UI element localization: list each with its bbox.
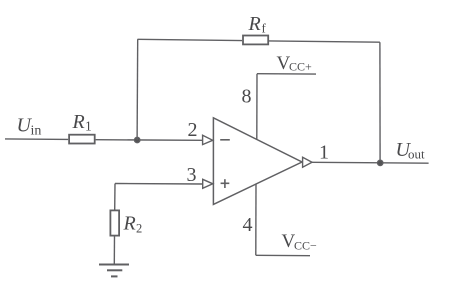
wire pin 4 vertical xyxy=(255,184,257,255)
wire feedback top right xyxy=(269,41,380,42)
node output junction xyxy=(378,160,383,165)
wire R2 to ground xyxy=(113,236,115,265)
wire Vcc- stub xyxy=(256,254,310,256)
wire feedback left vertical xyxy=(136,39,139,140)
svg-text:3: 3 xyxy=(187,164,197,186)
op-amp U1 triangle xyxy=(213,118,302,205)
pin 2 arrow inverting input xyxy=(203,135,213,144)
pin 3 arrow non-inverting input xyxy=(203,179,213,188)
pin 1 output arrow xyxy=(303,157,312,167)
svg-text:R: R xyxy=(123,213,136,235)
node A junction input xyxy=(135,137,140,142)
resistor Rf xyxy=(243,36,268,45)
wire pin 8 vertical xyxy=(256,74,258,140)
svg-text:f: f xyxy=(262,21,267,36)
svg-text:CC+: CC+ xyxy=(289,60,312,74)
svg-text:R: R xyxy=(72,111,85,133)
svg-text:out: out xyxy=(408,147,425,162)
wire feedback right vertical xyxy=(379,42,381,163)
svg-text:2: 2 xyxy=(188,119,198,141)
svg-text:1: 1 xyxy=(85,119,92,134)
wire input xyxy=(5,138,68,141)
minus sign inverting xyxy=(220,139,230,141)
svg-text:CC−: CC− xyxy=(294,239,317,253)
wire pin 3 horizontal xyxy=(115,183,203,186)
svg-text:1: 1 xyxy=(319,142,329,164)
svg-text:4: 4 xyxy=(243,214,253,236)
ground xyxy=(99,264,129,266)
wire output xyxy=(312,161,429,164)
svg-text:R: R xyxy=(248,13,261,35)
svg-text:8: 8 xyxy=(242,86,252,108)
svg-text:2: 2 xyxy=(136,222,142,236)
wire feedback top left xyxy=(138,39,243,40)
resistor R1 xyxy=(69,135,95,144)
svg-text:in: in xyxy=(31,124,42,139)
wire R1 to inverting input xyxy=(96,139,203,142)
wire R2 top vertical xyxy=(114,184,116,211)
resistor R2 xyxy=(110,210,119,235)
plus sign non-inverting xyxy=(221,182,230,184)
wire Vcc+ stub xyxy=(257,73,316,75)
